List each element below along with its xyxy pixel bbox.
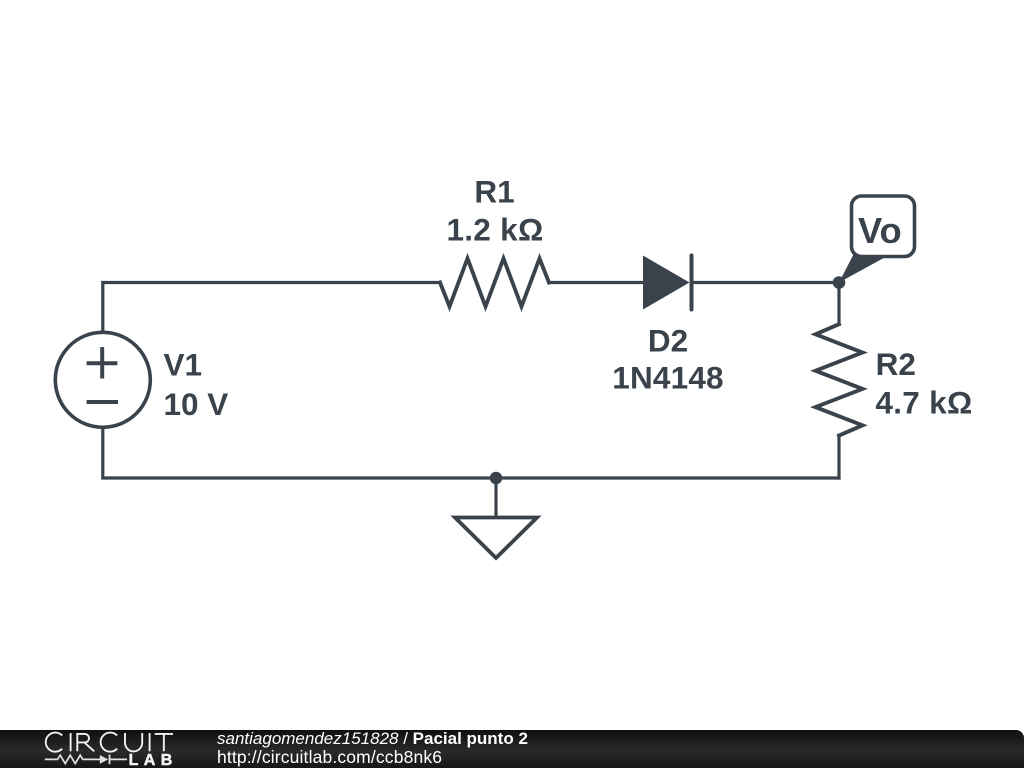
svg-text:Vo: Vo xyxy=(858,210,902,251)
svg-text:1N4148: 1N4148 xyxy=(612,359,724,395)
logo letter C1 xyxy=(46,733,62,752)
diode D2 cathode bar xyxy=(690,256,694,310)
wire top-left from V1 to R1 xyxy=(103,283,440,334)
logo letter C2 xyxy=(101,733,117,752)
svg-text:LAB: LAB xyxy=(129,752,178,768)
wire R2 to bottom rail xyxy=(837,436,840,479)
ground stub wire xyxy=(494,478,497,518)
svg-text:V1: V1 xyxy=(164,347,203,383)
footer bar xyxy=(0,730,1024,768)
diode D2 triangle xyxy=(643,256,690,310)
node junction dot at Vo xyxy=(833,276,846,289)
Vo flag pointer wedge xyxy=(839,252,886,283)
node junction dot at ground xyxy=(490,472,503,485)
wire bottom rail xyxy=(103,427,839,479)
Vo flag box xyxy=(852,196,915,257)
wire D2 cathode to node Vo xyxy=(692,281,840,284)
V1 minus sign xyxy=(87,400,118,404)
logo letter R xyxy=(77,734,94,751)
ground symbol triangle xyxy=(455,518,537,559)
logo letter U xyxy=(125,733,142,751)
svg-text:D2: D2 xyxy=(648,322,688,358)
wire node Vo down to R2 xyxy=(837,283,840,325)
voltage source V1 circle xyxy=(55,332,150,427)
svg-text:R2: R2 xyxy=(876,346,916,382)
svg-text:R1: R1 xyxy=(474,173,514,209)
resistor R1 xyxy=(440,259,549,307)
logo letter I1 xyxy=(70,733,72,751)
footer title line xyxy=(217,729,528,749)
svg-text:4.7 kΩ: 4.7 kΩ xyxy=(875,385,972,421)
footer url line xyxy=(217,747,442,768)
svg-text:1.2 kΩ: 1.2 kΩ xyxy=(446,211,543,247)
resistor R2 xyxy=(816,324,863,435)
svg-text:10 V: 10 V xyxy=(164,386,229,422)
logo resistor-diode glyph xyxy=(45,755,127,765)
logo letter I2 xyxy=(149,733,151,751)
logo letter T xyxy=(155,734,173,751)
wire R1 to D2 xyxy=(549,281,643,284)
V1 plus sign xyxy=(87,347,118,378)
